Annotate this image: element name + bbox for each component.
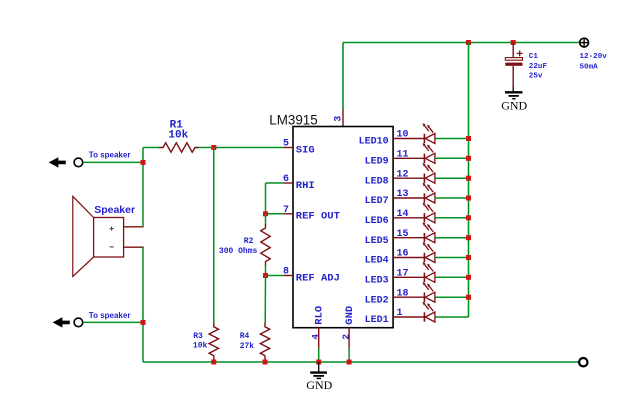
LED supply bus wire: [468, 43, 470, 318]
svg-text:1: 1: [397, 308, 403, 319]
junction bottom rail / R4: [263, 360, 268, 365]
wire speaker +: [124, 226, 144, 228]
svg-text:22uF: 22uF: [529, 63, 548, 71]
junction bus / LED10: [466, 136, 471, 141]
pin 6 RHI label: [283, 174, 315, 192]
svg-text:LED4: LED4: [365, 256, 389, 267]
svg-text:10: 10: [397, 130, 409, 141]
svg-text:12: 12: [397, 169, 409, 180]
pin stub REF ADJ: [284, 275, 293, 277]
pin stub SIG: [284, 147, 293, 149]
junction top wire / C1: [511, 40, 516, 45]
junction REF ADJ / R4: [263, 273, 268, 278]
svg-text:LED9: LED9: [365, 156, 389, 167]
ground symbol at RLO: [306, 362, 332, 392]
wire REF ADJ: [266, 275, 285, 277]
junction bus / LED3: [466, 275, 471, 280]
svg-text:SIG: SIG: [296, 144, 315, 156]
wire RHI down to REF OUT: [266, 183, 285, 214]
label R2 300 Ohms: [219, 237, 258, 256]
terminal +V (circle with cross): [580, 38, 589, 47]
svg-text:LED8: LED8: [365, 176, 389, 187]
terminal To speaker (bottom): [53, 311, 143, 328]
pin stub RLO: [318, 328, 320, 363]
svg-text:50mA: 50mA: [580, 63, 599, 71]
LED D8 (LED8, pin 12): [365, 163, 469, 187]
svg-text:C1: C1: [529, 53, 539, 61]
svg-text:LM3915: LM3915: [269, 113, 317, 128]
wire speaker -: [124, 246, 144, 248]
svg-text:LED3: LED3: [365, 275, 389, 286]
LED D7 (LED7, pin 13): [365, 183, 469, 207]
terminal To speaker (top): [49, 150, 143, 167]
op-amp/IC U1 LM3915 body: [269, 113, 393, 328]
junction bus / LED7: [466, 196, 471, 201]
svg-text:R3: R3: [193, 332, 203, 341]
LED D2 (LED2, pin 18): [365, 282, 469, 306]
pin 5 SIG label: [283, 139, 315, 157]
svg-text:10k: 10k: [168, 129, 188, 141]
svg-text:3: 3: [333, 116, 344, 122]
pin 8 REF ADJ label: [283, 267, 340, 285]
junction bus / LED2: [466, 295, 471, 300]
junction bottom rail / RLO: [316, 360, 321, 365]
svg-text:GND: GND: [344, 306, 356, 325]
svg-text:11: 11: [397, 150, 409, 161]
svg-text:GND: GND: [306, 378, 332, 392]
label R3 10k: [193, 332, 208, 350]
svg-text:17: 17: [397, 269, 409, 280]
pin 7 REF OUT label: [283, 205, 340, 223]
junction bus / LED4: [466, 255, 471, 260]
wire from supply rail to IC pin 3: [342, 43, 344, 127]
svg-text:13: 13: [397, 189, 409, 200]
svg-text:LED5: LED5: [365, 236, 389, 247]
svg-text:REF ADJ: REF ADJ: [296, 272, 340, 284]
LED D9 (LED9, pin 11): [365, 143, 469, 167]
svg-text:GND: GND: [501, 98, 527, 112]
svg-text:RHI: RHI: [296, 180, 315, 192]
LED D4 (LED4, pin 16): [365, 242, 469, 266]
resistor R3: [209, 323, 218, 362]
junction bottom rail / GND pin: [347, 360, 352, 365]
LED D10 (LED10, pin 10): [359, 123, 469, 147]
LED D3 (LED3, pin 17): [365, 262, 469, 286]
svg-text:4: 4: [310, 334, 321, 340]
svg-text:To speaker: To speaker: [89, 150, 131, 159]
ground symbol at C1: [501, 87, 527, 112]
pin 2 GND label (rotated): [341, 306, 356, 340]
svg-text:R4: R4: [240, 332, 250, 341]
junction bottom rail / R3: [211, 360, 216, 365]
speaker LS1: [73, 196, 124, 276]
svg-text:LED2: LED2: [365, 295, 389, 306]
junction bus / LED8: [466, 176, 471, 181]
junction bus / LED9: [466, 156, 471, 161]
wire bottom ground rail: [143, 361, 580, 363]
junction left rail / bottom speaker wire: [141, 320, 146, 325]
junction R1 / R3 rail: [211, 145, 216, 150]
pin 4 RLO label (rotated): [310, 306, 325, 340]
svg-text:LED7: LED7: [365, 196, 389, 207]
svg-text:10k: 10k: [193, 341, 208, 350]
svg-text:27k: 27k: [240, 342, 255, 351]
svg-text:Speaker: Speaker: [94, 204, 135, 216]
pin stub REF OUT: [284, 213, 293, 215]
svg-text:16: 16: [397, 249, 409, 260]
junction top wire / bus: [466, 40, 471, 45]
junction bus / LED5: [466, 235, 471, 240]
svg-text:REF OUT: REF OUT: [296, 211, 340, 223]
svg-text:18: 18: [397, 288, 409, 299]
junction bus / LED6: [466, 215, 471, 220]
wire SIG to R1 junction: [198, 147, 284, 149]
svg-text:LED1: LED1: [365, 315, 389, 326]
wire left rail upper segment: [142, 148, 144, 227]
LED D1 (LED1, pin 1): [365, 302, 469, 326]
svg-text:15: 15: [397, 229, 409, 240]
capacitor C1: [505, 43, 522, 88]
svg-text:12-20v: 12-20v: [580, 53, 608, 61]
junction left rail / top speaker wire: [141, 160, 146, 165]
pin stub GND: [348, 328, 350, 363]
svg-text:LED10: LED10: [359, 137, 389, 148]
svg-text:To speaker: To speaker: [89, 311, 131, 320]
resistor R1: [143, 143, 199, 152]
svg-text:LED6: LED6: [365, 216, 389, 227]
resistor R4: [260, 323, 269, 362]
wire top supply rail: [343, 42, 580, 44]
svg-text:14: 14: [397, 209, 409, 220]
junction REF OUT / R2: [263, 211, 268, 216]
label R1 10k: [168, 120, 188, 142]
resistor R2: [261, 214, 270, 276]
wire REF ADJ down to R4: [264, 276, 266, 324]
wire REF OUT: [266, 213, 285, 215]
pin stub RHI: [284, 182, 293, 184]
svg-text:R2: R2: [244, 237, 254, 246]
svg-text:25v: 25v: [529, 72, 543, 80]
wire left rail lower segment: [142, 247, 144, 362]
svg-text:RLO: RLO: [314, 306, 326, 325]
wire R3 rail (R1 junction down to R3): [213, 148, 215, 324]
svg-text:2: 2: [341, 334, 352, 340]
svg-text:300 Ohms: 300 Ohms: [219, 247, 258, 256]
LED D5 (LED5, pin 15): [365, 222, 469, 246]
label C1 22uF 25v: [529, 53, 548, 80]
LED D6 (LED6, pin 14): [365, 203, 469, 227]
terminal ground (bottom right): [579, 358, 587, 366]
label R4 27k: [240, 332, 255, 351]
label supply 12-20v 50mA: [580, 53, 608, 71]
